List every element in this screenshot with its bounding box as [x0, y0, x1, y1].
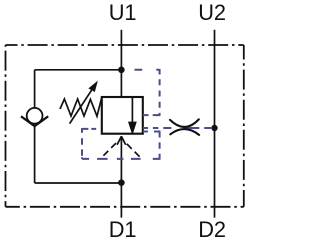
junction dot at top (U1/check valve) [118, 67, 125, 74]
valve internal arrow head (down) [128, 122, 137, 136]
enclosure boundary left edge [5, 45, 7, 207]
wire D1 vertical from valve box bottom arrow down [120, 136, 122, 217]
pilot line (dashed) top: from U1 junction to box right upper port [135, 69, 161, 115]
svg-text:D1: D1 [109, 217, 137, 242]
wire check valve branch upper vertical [34, 70, 36, 108]
enclosure boundary bottom edge [6, 206, 244, 208]
check valve V1 circle [27, 108, 43, 124]
spring (adjustable) zigzag [60, 97, 102, 116]
junction dot at bottom (D1/check valve) [118, 179, 125, 186]
valve internal flow line [131, 97, 133, 123]
pilot line (dashed) to orifice and U2 line [143, 127, 212, 129]
orifice top arc [170, 119, 199, 127]
adjustment arrow shaft [70, 89, 93, 124]
open arrow at valve bottom (pointing up) [117, 136, 126, 145]
check valve V1 seat [21, 116, 48, 126]
junction dot on U2-D2 line [211, 125, 217, 131]
svg-text:U1: U1 [109, 0, 137, 25]
wire top horizontal from check valve branch to U1 line [35, 69, 122, 71]
dashed diagonal left (pilot link) [103, 143, 116, 156]
wire U2-D2 vertical line [214, 30, 216, 218]
drain dashed loop around valve bottom [82, 128, 160, 160]
enclosure boundary right edge [243, 45, 245, 207]
wire bottom horizontal from check valve branch to D1 line [35, 182, 122, 184]
orifice bottom arc [170, 129, 199, 135]
wire U1 vertical down to valve box top [120, 30, 122, 97]
svg-text:U2: U2 [198, 0, 226, 25]
valve box (main stage) [102, 97, 143, 134]
adjustment arrow head [88, 81, 98, 92]
enclosure boundary (dash-dot frame) top edge [6, 44, 244, 46]
dashed diagonal right (pilot link) [127, 144, 140, 157]
wire check valve branch lower vertical [34, 126, 36, 184]
svg-text:D2: D2 [198, 217, 226, 242]
